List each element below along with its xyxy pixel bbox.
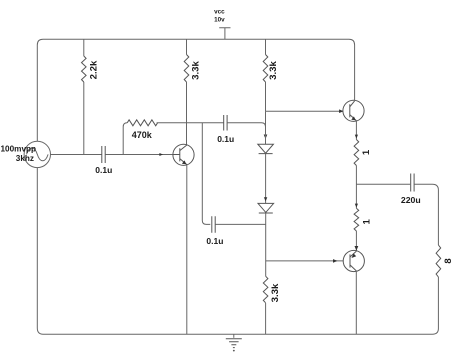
capacitor C3 0.1u (lower coupling) (206, 216, 223, 246)
svg-text:1: 1 (361, 218, 372, 224)
resistor R2 3.3k (Q1 collector load) (184, 39, 201, 144)
voltage source V1 100mvpp 3khz (1, 141, 51, 167)
transistor Q2 (NPN, upper output) (343, 100, 364, 121)
svg-text:220u: 220u (401, 195, 421, 205)
wire: VCC top rail with left and right drops (37, 39, 354, 141)
wire: Q2 emitter to R5 (355, 121, 358, 140)
svg-text:0.1u: 0.1u (206, 236, 223, 246)
resistor R5 1 (354, 140, 372, 166)
wire: C1 to Q1 base (with arrow) (105, 153, 180, 156)
vcc power symbol (214, 9, 230, 40)
svg-text:3.3k: 3.3k (191, 61, 202, 80)
svg-text:470k: 470k (132, 130, 153, 140)
svg-text:0.1u: 0.1u (95, 165, 112, 175)
svg-text:vcc: vcc (214, 9, 225, 16)
wire: Q3 collector to ground rail (355, 271, 357, 334)
resistor R7 3.3k (bottom bias) (263, 276, 281, 334)
ground symbol (226, 334, 242, 351)
diode D2 (258, 203, 274, 213)
resistor R3 470k (127, 120, 157, 140)
capacitor C4 220u (401, 174, 421, 206)
svg-text:3khz: 3khz (16, 154, 34, 163)
resistor R1 2.2k (82, 39, 100, 154)
wire: bottom ground rail (37, 168, 438, 335)
wire: source to input cap (51, 154, 102, 156)
resistor R8 8 (load) (436, 245, 454, 277)
wire: D2 down through C3 node and Q3 base node (265, 213, 267, 276)
wire: bias node to Q2 base (arrow) (266, 109, 350, 113)
svg-text:3.3k: 3.3k (270, 283, 281, 302)
wire: 470k to coupling cap C2 (crosses Q1 collector node) (157, 122, 224, 124)
capacitor C2 0.1u (upper coupling) (217, 115, 234, 144)
svg-text:100mvpp: 100mvpp (1, 145, 37, 154)
wire: output node to 220u cap (356, 183, 410, 185)
svg-text:10v: 10v (214, 16, 225, 23)
svg-text:2.2k: 2.2k (89, 60, 100, 79)
wire: C4 to load resistor (414, 184, 438, 245)
capacitor C1 0.1u (95, 146, 112, 175)
wire: D1 to D2 (arrow) (264, 154, 267, 204)
wire: node to Q3 base (arrow) (266, 259, 350, 263)
wire: tap from 470k line down to lower cap C3 (202, 123, 210, 225)
wire: bias node down to diode D1 (265, 111, 267, 144)
resistor R4 3.3k (bias, upper right column) (263, 39, 279, 111)
wire: C3 to diode bottom node (215, 223, 265, 225)
wire: Q1 base node up to 470k (123, 123, 127, 155)
diode D1 (258, 144, 274, 153)
svg-text:1: 1 (361, 149, 372, 155)
wire: C2 to diode node (arrow down) (227, 123, 267, 144)
svg-text:0.1u: 0.1u (217, 134, 234, 144)
wire: R6 to Q3 emitter (355, 231, 359, 251)
transistor Q1 (NPN, input stage) (173, 144, 194, 165)
transistor Q3 (PNP, lower output) (343, 250, 364, 271)
svg-text:3.3k: 3.3k (268, 61, 279, 80)
svg-text:8: 8 (443, 258, 454, 264)
wire: Q1 emitter to ground rail (186, 165, 188, 334)
resistor R6 1 (354, 208, 372, 231)
wire: R5 through output node to R6 (355, 166, 358, 209)
